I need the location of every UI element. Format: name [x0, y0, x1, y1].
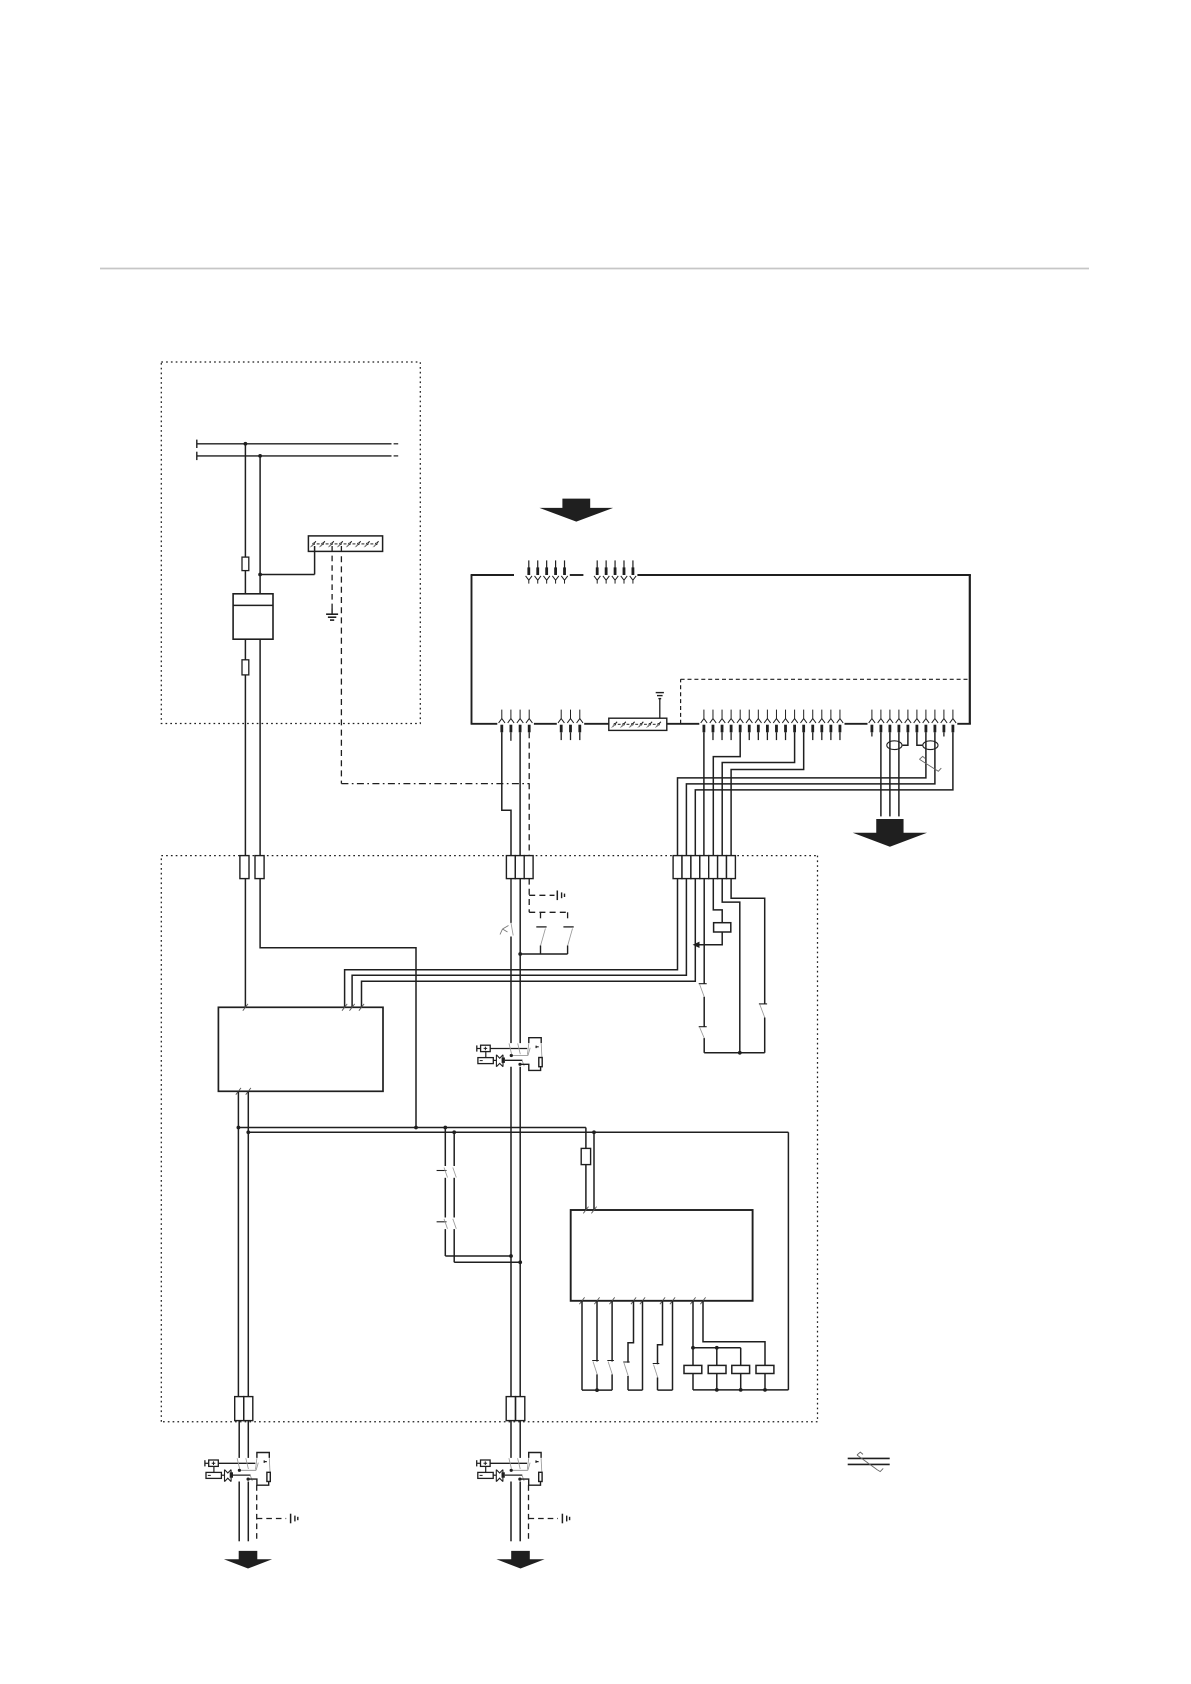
wire - right load feed b [519, 1421, 521, 1458]
wire - rail B to lower box [593, 1132, 595, 1210]
bus bar B+ (lower) [197, 455, 392, 457]
wire - lower pin4 jog [628, 1301, 634, 1363]
connector - right output pair (C6) [506, 1397, 515, 1421]
connector pins - unit box top group A (5 pins) [528, 560, 530, 567]
ground cap - right load [561, 1514, 563, 1524]
switch SW4 (relay contact) [760, 1005, 765, 1018]
wire - control out1 down [237, 1091, 239, 1396]
horizontal page rule [100, 268, 1089, 270]
shielded pair - oval 2 [923, 741, 938, 750]
fusible link block [308, 536, 382, 552]
rail - output B [248, 1131, 788, 1133]
wire - feed 1 below battery [244, 639, 246, 660]
wire - feed B upper [519, 879, 521, 1044]
pin tick - control unit bottom out2 [246, 1088, 251, 1095]
dashed wire - group1 pin4 accessory feed [528, 732, 530, 855]
connector - feed1 inline (C1) [240, 856, 249, 879]
wire - feed2 elbow to distribution [260, 879, 416, 1128]
lead - R3 top [740, 1348, 742, 1366]
wire - pair2 return bus [658, 1389, 673, 1391]
wire - pair1 lower [627, 1376, 629, 1390]
dashed net - unit box internal link [680, 679, 682, 724]
pin tick - lower box bottom 2 [594, 1297, 599, 1304]
node - optional switch return joins feed B [518, 952, 522, 956]
ground - inside unit box [656, 692, 664, 694]
wire - left load feed a [238, 1421, 240, 1458]
wire - control out2 down [247, 1091, 249, 1396]
wire - feed 1 to battery box [244, 571, 246, 595]
wire - ignition feed upper [510, 879, 512, 923]
connector pins - unit box top group B (5 pins) [596, 560, 598, 567]
wire - lower pin5 down [642, 1301, 644, 1390]
node - wire1 tap on upper bus [244, 442, 248, 446]
wire - col4 upper [703, 879, 705, 984]
switch SW7 [623, 1361, 630, 1363]
wire - col5 to relay coil [713, 879, 722, 923]
lower unit box (actuator driver) [571, 1210, 753, 1301]
connector pins - unit box bottom group 4 (10 pins) [871, 710, 873, 719]
wire - col7 upper [731, 879, 765, 1004]
wire - col4 mid [703, 997, 705, 1027]
wire - feed B mid section [519, 1067, 521, 1397]
noise filter (condenser) symbol [556, 891, 558, 901]
wire - lower pin6 jog [658, 1301, 663, 1365]
load cluster - middle (on ignition feed) [477, 1038, 542, 1071]
dashed lead - left load shield [256, 1485, 258, 1541]
shield drain lead - group4 pin5 [903, 732, 908, 745]
wire - lower pin8 to resistor rail [692, 1301, 694, 1348]
node - R3 return [739, 1388, 743, 1392]
wire - right load tail b [519, 1482, 521, 1542]
lead - R2 top [716, 1348, 718, 1366]
fuse F1 (main fusible link) [242, 557, 249, 571]
wire - left load tail a [238, 1482, 240, 1542]
pin tick - control unit bottom out1 [236, 1088, 241, 1095]
switch SW8 [653, 1363, 660, 1365]
node - relay common on bus [738, 1051, 742, 1055]
pin tick - lower box bottom 9 [700, 1297, 705, 1304]
resistor R1 [684, 1365, 702, 1373]
pin tick - lower box bottom 8 [690, 1297, 695, 1304]
node - R4 return [763, 1388, 767, 1392]
pin tick - control unit top in3 [350, 1004, 355, 1011]
wire - lower pin7 down [672, 1301, 674, 1390]
flow arrow - harness continues (right) [853, 819, 927, 847]
twist mark - group4 pair [919, 759, 935, 769]
wire - lower pin3 lower [611, 1374, 613, 1390]
bus - resistor returns [693, 1389, 788, 1391]
pin tick - lower box bottom 7 [670, 1297, 675, 1304]
node - trio bus [595, 1388, 599, 1392]
node - fusible lead joins feed 2 [258, 573, 262, 577]
pin tick - lower box bottom 6 [660, 1297, 665, 1304]
dashed lead - fusible link to ground [331, 546, 333, 609]
wire - optional switch return bus [520, 953, 567, 955]
battery box [233, 594, 273, 639]
switch SW6 [607, 1360, 614, 1362]
wire - group1 pin1 with jog [502, 732, 511, 855]
dashed lead - accessory into cabin [528, 879, 530, 913]
connector pins - unit box bottom group 3 (16 pins) [703, 710, 705, 719]
wire - pair2 lower [657, 1378, 659, 1391]
small fusible link block on unit box edge [609, 718, 667, 730]
node - rail B tap to lower box [592, 1130, 596, 1134]
wire - feed 1 to cabin connector [244, 675, 246, 856]
resistor R4 [756, 1365, 774, 1373]
bus bar end dash (lower) [394, 455, 399, 457]
wire - lower pin2 upper [596, 1301, 598, 1362]
pin tick - lower box top 1 [583, 1207, 588, 1214]
branch - rail A tap down [444, 1128, 446, 1167]
dash-dot route - fusible to accessory [341, 783, 529, 785]
rail - output A [238, 1127, 586, 1129]
connector - 7way inline (C4) [673, 856, 682, 879]
wire - right load feed a [510, 1421, 512, 1458]
bus bar end dash (upper) [394, 443, 399, 445]
wire - left load tail b [247, 1482, 249, 1542]
bus bar B+ (upper) [197, 443, 392, 445]
wire - feed 1 upper section [244, 444, 246, 557]
wire - group3 pin5 jog [713, 732, 740, 855]
node - resistor rail left [691, 1346, 695, 1350]
dashed lead - fusible link down-route [340, 546, 342, 784]
wire - lower pin3 upper [611, 1301, 613, 1362]
flow arrow - right load continues [496, 1551, 544, 1569]
lead - R1 bottom [692, 1374, 694, 1390]
wire - relay contact lower [764, 1018, 766, 1053]
branch - to feed B [454, 1261, 520, 1263]
wire stub - group1 pin2 [510, 732, 512, 741]
load cluster - bottom left [205, 1453, 270, 1486]
wire - col4 to relay bus [703, 1038, 705, 1053]
node - R2 tap [715, 1346, 719, 1350]
switch SW3 contact a [700, 985, 705, 997]
wire - col2 to control unit [352, 879, 686, 1008]
node - out2 taps rail B [246, 1130, 250, 1134]
lead - R4 bottom [764, 1374, 766, 1390]
connector pins - unit box bottom group 2 (3 pins) [560, 710, 562, 719]
wire - rail B to resistor pack [787, 1132, 789, 1390]
lead - R3 bottom [740, 1374, 742, 1390]
break mark - ignition feed [511, 923, 513, 936]
inline connector pair - branch upper [437, 1170, 447, 1172]
node - branch joins ignition feed [509, 1254, 513, 1258]
switch SW1 (optional) [536, 926, 546, 928]
dashed lead - to noise filter [529, 894, 554, 896]
dashed lead - right load shield [528, 1485, 530, 1541]
dashed boundary - cabin area [161, 856, 817, 1422]
pin tick - control unit top in1 [243, 1004, 248, 1011]
switch SW5 [592, 1360, 599, 1362]
branch - to ignition feed [445, 1255, 511, 1257]
wire - feed1 to control unit [244, 879, 246, 1008]
wire - lower pin9 to R4 [703, 1301, 765, 1366]
ground cap - left load [290, 1514, 292, 1524]
wire - right load tail a [510, 1482, 512, 1542]
shield drain lead - group4 pin6 [917, 732, 923, 745]
wire - left load feed b [247, 1421, 249, 1458]
node - out1 taps rail A [237, 1126, 241, 1130]
lead - relay coil to col3 (arrow junction) [699, 932, 723, 945]
resistor R3 [732, 1365, 750, 1373]
switch SW3 contact b [700, 1028, 705, 1039]
connector - left output pair (C5) [235, 1397, 244, 1421]
lead - R2 bottom [716, 1374, 718, 1390]
node - feed2 joins rail A [414, 1126, 418, 1130]
wire - group4 pin3 to lower arrow [889, 732, 891, 816]
ground - battery compartment [326, 613, 338, 615]
connector - 3way inline (C3) [506, 856, 515, 879]
rail - resistor tops [693, 1347, 741, 1349]
node - R2 return [715, 1388, 719, 1392]
twisted pair marker [848, 1457, 890, 1459]
wire - fusible link lead to feed 2 [314, 546, 316, 575]
node - branch joins feed B [518, 1260, 522, 1264]
wire - feed 2 to cabin connector [259, 639, 261, 855]
wire - group4 pin8 to connector col2 [686, 732, 935, 855]
wire - col1 to control unit [345, 879, 678, 1008]
node - branch tap B [452, 1130, 456, 1134]
wire - group3 pin12 jog [731, 732, 804, 855]
pin tick - lower box bottom 5 [640, 1297, 645, 1304]
wire - group4 pin10 to connector col3 [695, 732, 953, 855]
wire - ignition feed mid section [510, 1067, 512, 1397]
wire - lower pin1 down [581, 1301, 583, 1390]
wire - group4 pin4 to lower arrow [898, 732, 900, 816]
dashed link - optional switch box top [529, 911, 567, 913]
connector - feed2 inline (C2) [255, 856, 264, 879]
inline connector pair - branch lower [437, 1221, 447, 1223]
wire - lower pin2 lower [596, 1374, 598, 1390]
load cluster - bottom right [477, 1453, 542, 1486]
wire - group4 pin2 to lower arrow [880, 732, 882, 816]
node - wire2 tap on lower bus [258, 454, 262, 458]
unit box - main junction block outline [471, 575, 473, 724]
wire - trio return bus [582, 1389, 612, 1391]
resistor R2 [708, 1365, 726, 1373]
pin tick - lower box top 2 [591, 1207, 596, 1214]
wire - feed 2 to battery box [259, 456, 261, 595]
shielded pair - oval 1 [887, 741, 902, 750]
pin tick - control unit top in4 [359, 1004, 364, 1011]
switch SW2 (optional) [563, 926, 573, 928]
pin tick - control unit top in2 [342, 1004, 347, 1011]
wire - group4 pin7 to connector col1 [678, 732, 926, 855]
flow arrow - to unit box (page ref) [539, 499, 613, 522]
control unit box [218, 1007, 383, 1091]
wire - relay bus [704, 1052, 765, 1054]
fuse F3 [585, 1128, 587, 1149]
connector pins - unit box bottom group 1 (4 pins) [501, 710, 503, 719]
fuse F2 [242, 660, 249, 675]
lead - ground to small fusible block [659, 699, 661, 719]
wire - col6 to relay common [722, 879, 740, 1053]
pin tick - lower box bottom 1 [579, 1297, 584, 1304]
node - branch tap A [443, 1126, 447, 1130]
relay coil K1 [714, 923, 731, 932]
wire - group1 pin3 [519, 732, 521, 855]
dashed boundary - battery/engine compartment [161, 362, 420, 724]
branch - rail B tap down [453, 1132, 455, 1166]
wire - group3 pin1 down [703, 732, 705, 855]
pin tick - lower box bottom 4 [631, 1297, 636, 1304]
flow arrow - left load continues [224, 1551, 272, 1569]
wire - group3 pin11 jog [722, 732, 794, 855]
lead - R1 top [692, 1348, 694, 1366]
wire - ignition feed lower [510, 937, 512, 1044]
wire - pair1 return bus [628, 1389, 643, 1391]
pin tick - lower box bottom 3 [610, 1297, 615, 1304]
wire - col3 to control unit [362, 879, 696, 1008]
